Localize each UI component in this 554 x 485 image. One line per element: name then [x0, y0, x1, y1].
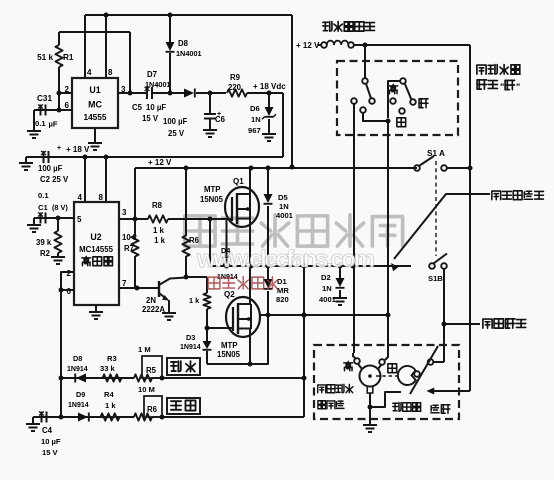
svg-text:R2: R2	[40, 249, 51, 258]
svg-text:100 µF: 100 µF	[38, 164, 63, 173]
junction switch low node	[386, 119, 391, 124]
ground U1	[94, 128, 96, 142]
ground C6	[203, 129, 217, 131]
watermark big gray glyphs dianzi fashaoyou wang	[185, 216, 215, 246]
svg-text:100 µF: 100 µF	[163, 117, 188, 126]
transistor Q3 2N2222A	[158, 281, 160, 297]
junction pin3 feedback	[128, 91, 133, 96]
svg-text:1N4001: 1N4001	[176, 49, 202, 58]
resistor R8 1k	[148, 215, 168, 222]
diode D2 1N4001	[339, 266, 341, 278]
junction Q1 drain rail	[249, 166, 254, 171]
switch pole A contacts	[362, 78, 368, 84]
svg-text:220: 220	[228, 83, 242, 92]
resistor R9 220	[227, 89, 247, 96]
capacitor C5 10uF 15V	[146, 87, 148, 99]
svg-text:1 k: 1 k	[105, 401, 116, 410]
wire low wire into terminal	[385, 312, 388, 360]
ground motor	[363, 424, 377, 426]
resistor R5 1M	[134, 374, 152, 381]
svg-text:10 µF: 10 µF	[146, 103, 166, 112]
junction cam callout	[442, 322, 447, 327]
switch S1B	[429, 263, 435, 269]
wire motor-low line from Q2	[259, 314, 388, 316]
ground C1	[33, 218, 35, 224]
cam follower lever arm	[410, 346, 438, 394]
diode D8 1N4001 vertical	[169, 15, 171, 42]
fuse wiper fuse	[318, 44, 322, 46]
ground C2	[25, 157, 27, 162]
svg-text:S1B: S1B	[428, 274, 443, 283]
wire pause line	[33, 416, 134, 418]
junction high-wire bus	[351, 264, 356, 269]
capacitor C2 100uF 25V	[43, 151, 45, 163]
wire motor-high bus line	[210, 265, 411, 267]
svg-text:1N914: 1N914	[67, 366, 88, 373]
junction R6 box	[160, 415, 165, 420]
junction Q2 gate node	[205, 326, 210, 331]
wire U1 pin2 stub	[59, 92, 72, 94]
wire D7 to R9	[196, 92, 226, 94]
junction C6 top	[208, 91, 213, 96]
svg-text:C4: C4	[42, 426, 53, 435]
diode D1 MR820	[267, 266, 269, 279]
wire dashed gang link S1A-S1B	[435, 161, 437, 256]
svg-text:C31: C31	[37, 94, 52, 103]
junction D8 top	[168, 13, 173, 18]
wire C5 to D7	[152, 92, 184, 94]
svg-text:": "	[516, 82, 520, 92]
wire Q1 drain to rail	[249, 168, 251, 194]
wire fuse to right rail	[354, 44, 470, 46]
wire U2 pin3 line	[119, 218, 148, 220]
wire Q2 source down	[249, 329, 251, 364]
junction D5 top	[266, 166, 271, 171]
svg-text:4001: 4001	[319, 295, 337, 304]
svg-text:2: 2	[67, 269, 72, 278]
svg-text:U1: U1	[89, 85, 100, 95]
wire D3 to Q2 source to D1 bottom	[207, 315, 268, 364]
junction R7 bottom	[135, 286, 140, 291]
svg-text:2222A: 2222A	[142, 305, 165, 314]
resistor R6b 10M	[134, 413, 152, 420]
watermark red dianzi fashaoyou	[208, 277, 220, 289]
svg-text:4: 4	[87, 68, 92, 77]
svg-text:820: 820	[276, 295, 289, 304]
svg-text:33 k: 33 k	[100, 364, 116, 373]
junction motor-low wire	[386, 313, 391, 318]
svg-text:D3: D3	[186, 333, 195, 342]
junction R5 box	[160, 376, 165, 381]
svg-text:C2 25 V: C2 25 V	[40, 175, 69, 184]
diode D4 1N914	[222, 258, 231, 266]
junction D4 bottom	[224, 264, 229, 269]
label original wiper switch off	[477, 65, 486, 74]
capacitor C6 100uF 25V	[209, 93, 211, 114]
label original connection yuanlaide lianxian	[492, 191, 501, 200]
svg-text:": "	[500, 82, 504, 92]
junction feedback vertical low-line	[302, 313, 307, 318]
svg-text:+: +	[57, 145, 61, 152]
svg-text:1 k: 1 k	[189, 296, 200, 305]
wire timing node vertical to D8 D9 lines	[60, 290, 62, 417]
switch S1A	[414, 165, 420, 171]
wire Q1 source down	[249, 219, 251, 266]
resistor R6 1k pull-up	[185, 168, 187, 236]
wire dashed motor-cam link	[376, 375, 398, 377]
ground D2	[333, 297, 347, 299]
callout cam switch line	[444, 323, 480, 325]
wire S1A to right vertical	[447, 167, 470, 169]
wire fuse drop into switch	[364, 45, 366, 78]
wire U1 pin3 output	[118, 92, 146, 94]
svg-text:8: 8	[99, 193, 104, 202]
cam contact circle	[414, 371, 420, 377]
svg-text:R6: R6	[189, 236, 200, 245]
junction U1 pin2 node	[57, 91, 62, 96]
label brake zhidongqi	[393, 403, 401, 412]
svg-text:15N05: 15N05	[200, 195, 224, 204]
junction U2 pin4 rail	[83, 155, 88, 160]
svg-text:µF: µF	[49, 120, 58, 129]
svg-text:15 V: 15 V	[142, 114, 159, 123]
svg-text:R1: R1	[63, 53, 74, 62]
svg-text:25 V: 25 V	[168, 129, 185, 138]
wire feedback vertical x304	[303, 266, 305, 417]
svg-text:15 V: 15 V	[42, 448, 59, 457]
svg-text:(8 V): (8 V)	[52, 203, 68, 212]
svg-text:1 k: 1 k	[154, 236, 166, 245]
wire feedback vertical to pin3 line	[129, 32, 131, 93]
svg-text:D6: D6	[250, 104, 260, 113]
ground D6	[262, 133, 276, 135]
diode D5 1N4001	[267, 168, 269, 194]
junction D2 top	[338, 264, 343, 269]
wire brake contact path	[370, 392, 401, 407]
junction x304 low-line	[302, 313, 307, 318]
diode D3 1N914	[203, 341, 212, 349]
svg-text:1 M: 1 M	[138, 345, 151, 354]
motor terminal high	[354, 358, 360, 364]
diode D9 1N914	[78, 413, 88, 422]
svg-text:5: 5	[77, 215, 82, 224]
motor M wiper motor	[360, 366, 381, 387]
svg-text:S1 A: S1 A	[427, 149, 445, 158]
switch blade A	[366, 84, 371, 99]
label motor low di	[388, 364, 397, 373]
wire U1 pin 4 drop	[84, 15, 86, 78]
label run yunxing	[431, 405, 439, 413]
wire Q1 gate bar extension	[226, 219, 228, 256]
svg-text:1N: 1N	[279, 202, 289, 211]
cam pivot contact	[428, 359, 434, 365]
svg-text:D8: D8	[73, 354, 82, 363]
transistor Q2 MTP15N05 MOSFET	[226, 297, 260, 337]
wire +12V rail down to pin3 line	[134, 168, 136, 219]
svg-text:C6: C6	[215, 115, 226, 124]
svg-text:51 k: 51 k	[37, 53, 53, 62]
svg-text:2: 2	[65, 85, 70, 94]
resistor R4 1k	[101, 413, 120, 420]
original wiper switch dashed box	[337, 61, 458, 135]
capacitor C4 10uF 15V	[41, 412, 43, 423]
motor common brush terminal	[367, 387, 373, 394]
wire R8 to Q1 gate	[168, 218, 232, 220]
junction Q2 source	[248, 362, 253, 367]
svg-text:D5: D5	[278, 193, 288, 202]
junction pin 2-6 loop	[59, 288, 64, 293]
cam switch cam	[398, 366, 416, 385]
resistor R2 39k	[57, 218, 59, 231]
svg-text:D7: D7	[147, 70, 157, 79]
wire +12V top line to U1 pins 4 and 8	[85, 14, 292, 16]
svg-text:Q1: Q1	[233, 177, 244, 186]
op-amp U1 MC14555 box	[72, 78, 118, 128]
resistor 1k Q2 gate	[206, 277, 208, 283]
svg-text:1N4001: 1N4001	[145, 80, 171, 89]
wire U2 pin 8 drop	[105, 157, 107, 202]
svg-text:www.elecfans.com: www.elecfans.com	[196, 246, 375, 273]
junction U2 pin8 rail	[104, 155, 109, 160]
svg-text:R6: R6	[147, 405, 158, 414]
ground R2	[51, 256, 65, 258]
switch blade B	[405, 84, 412, 100]
svg-text:10 M: 10 M	[138, 385, 155, 394]
wire switch pole B loop	[388, 81, 400, 118]
wire +18Vdc down to +18V rail	[282, 93, 284, 157]
label off duan	[419, 99, 428, 108]
svg-text:1N: 1N	[251, 115, 261, 124]
wire +18V rail	[26, 156, 283, 158]
svg-text:R5: R5	[146, 366, 157, 375]
label high gao	[389, 84, 398, 93]
junction S1A right rail	[468, 166, 473, 171]
wire Q2 gate stub	[207, 327, 233, 329]
svg-text:39 k: 39 k	[36, 238, 52, 247]
svg-text:7: 7	[122, 279, 127, 288]
svg-text:10 k: 10 k	[122, 233, 138, 242]
junction D5 D1 node	[266, 264, 271, 269]
label motor high gao	[344, 361, 353, 370]
svg-text:+ 18 Vdc: + 18 Vdc	[253, 82, 286, 91]
svg-text:15N05: 15N05	[217, 350, 241, 359]
resistor R3 33k	[103, 374, 122, 381]
svg-text:R9: R9	[230, 73, 241, 82]
svg-text:MC14555: MC14555	[79, 245, 113, 254]
junction U1 pin6 node	[57, 108, 62, 113]
svg-text:D8: D8	[178, 39, 189, 48]
label box pause zanting	[167, 398, 200, 414]
ground 2N2222A emitter	[162, 312, 176, 314]
svg-text:0.1: 0.1	[35, 119, 46, 128]
label box wipe guashui	[167, 358, 200, 375]
junction motor common	[368, 405, 373, 410]
svg-text:14555: 14555	[83, 112, 106, 122]
svg-text:MC: MC	[88, 100, 102, 110]
junction R7 top	[133, 217, 138, 222]
wiper motor dashed box	[314, 345, 459, 419]
junction fuse output	[363, 43, 368, 48]
junction R6 bottom collector	[184, 275, 189, 280]
switch pole B contacts	[400, 78, 406, 84]
svg-text:D9: D9	[76, 390, 85, 399]
capacitor C31 0.1uF	[34, 109, 72, 111]
junction D8 bottom	[168, 91, 173, 96]
svg-text:3: 3	[122, 208, 127, 217]
wire high wire down to motor	[353, 104, 355, 353]
svg-text:1N: 1N	[322, 284, 332, 293]
transistor Q1 MTP15N05 MOSFET	[225, 187, 259, 227]
wire low wire down to motor	[387, 121, 389, 312]
label wiper fuse guashuiqi rongsi	[323, 22, 332, 32]
svg-text:+ 12 V: + 12 V	[148, 158, 172, 167]
junction Q1 gate node	[208, 217, 213, 222]
wire U2 pin7 line	[119, 287, 159, 289]
label low di	[397, 118, 406, 127]
svg-text:8: 8	[108, 68, 113, 77]
svg-text:1 k: 1 k	[153, 226, 165, 235]
ground C4	[32, 417, 34, 423]
svg-text:2N: 2N	[146, 296, 156, 305]
svg-text:4: 4	[78, 193, 83, 202]
junction R6 top	[184, 166, 189, 171]
svg-text:R7: R7	[124, 244, 134, 253]
svg-text:D1: D1	[277, 277, 287, 286]
svg-text:1N914: 1N914	[68, 402, 89, 409]
wire switch contact C to low node	[363, 113, 388, 121]
junction x304 wipe-line	[302, 376, 307, 381]
svg-text:U2: U2	[90, 232, 101, 242]
svg-text:R3: R3	[107, 354, 117, 363]
svg-text:4001: 4001	[276, 211, 294, 220]
wire top line down to +12V rail	[291, 15, 293, 167]
wire R9 to +18Vdc corner	[247, 92, 283, 94]
svg-text:C1: C1	[38, 203, 48, 212]
wire collector line	[184, 276, 207, 278]
svg-text:6: 6	[65, 101, 70, 110]
junction Q1 source bus	[249, 264, 254, 269]
junction top-line feed	[290, 165, 295, 170]
wire U1 pin 8 drop	[105, 15, 107, 78]
wire U2 pins 2-6 loop	[61, 272, 74, 290]
wire main right vertical	[469, 45, 471, 391]
svg-text:D2: D2	[321, 273, 331, 282]
svg-text:+ 18 V: + 18 V	[66, 145, 90, 154]
svg-text:MTP: MTP	[204, 185, 220, 194]
svg-text:967: 967	[248, 126, 261, 135]
wire +12V rail	[135, 167, 417, 169]
resistor R7 10k	[134, 219, 136, 236]
ground U2	[95, 305, 97, 311]
capacitor C1 0.1uF 8V	[34, 217, 74, 219]
label cam switch tulun kaiguan	[483, 319, 492, 328]
resistor R1 51k	[58, 32, 60, 45]
ground C31	[33, 110, 35, 130]
zener diode D6 1N967	[268, 93, 270, 107]
svg-text:+ 12 V: + 12 V	[296, 41, 320, 50]
junction wipe line left	[59, 376, 64, 381]
wire run arrow line	[430, 390, 470, 392]
op-amp U2 MC14555 timer box	[74, 202, 119, 305]
junction C1 R2 pin5 node	[56, 216, 61, 221]
diode D8b 1N914 wipe	[76, 374, 86, 383]
svg-text:MTP: MTP	[221, 341, 237, 350]
wire U2 pin 4 drop	[84, 157, 86, 202]
wire wipe line	[61, 377, 134, 379]
motor terminal low	[379, 359, 385, 365]
wire Q1 gate node down	[209, 219, 211, 266]
svg-text:R8: R8	[152, 201, 163, 210]
junction D6 top	[267, 91, 272, 96]
junction pin8 top	[104, 13, 109, 18]
svg-text:MR: MR	[277, 286, 289, 295]
junction D1 bottom	[266, 313, 271, 318]
svg-text:Q2: Q2	[224, 290, 235, 299]
svg-text:0.1: 0.1	[38, 191, 49, 200]
svg-text:1N914: 1N914	[180, 344, 201, 351]
svg-text:10 µF: 10 µF	[41, 437, 61, 446]
wire Q2 drain up	[249, 266, 251, 304]
svg-text:R4: R4	[104, 390, 114, 399]
callout original connection line	[394, 194, 490, 259]
wire R1 feedback line	[59, 31, 130, 33]
junction feedback vertical bus	[302, 264, 307, 269]
junction pause line left	[59, 415, 64, 420]
label windshield wiper motor fengdang guashuiqi mada	[318, 385, 326, 393]
diode D7 1N4001	[184, 89, 194, 98]
svg-text:C5: C5	[132, 103, 143, 112]
svg-text:6: 6	[67, 287, 72, 296]
wire S1B down to cam	[443, 269, 445, 362]
wire high wire into terminal	[353, 353, 356, 359]
